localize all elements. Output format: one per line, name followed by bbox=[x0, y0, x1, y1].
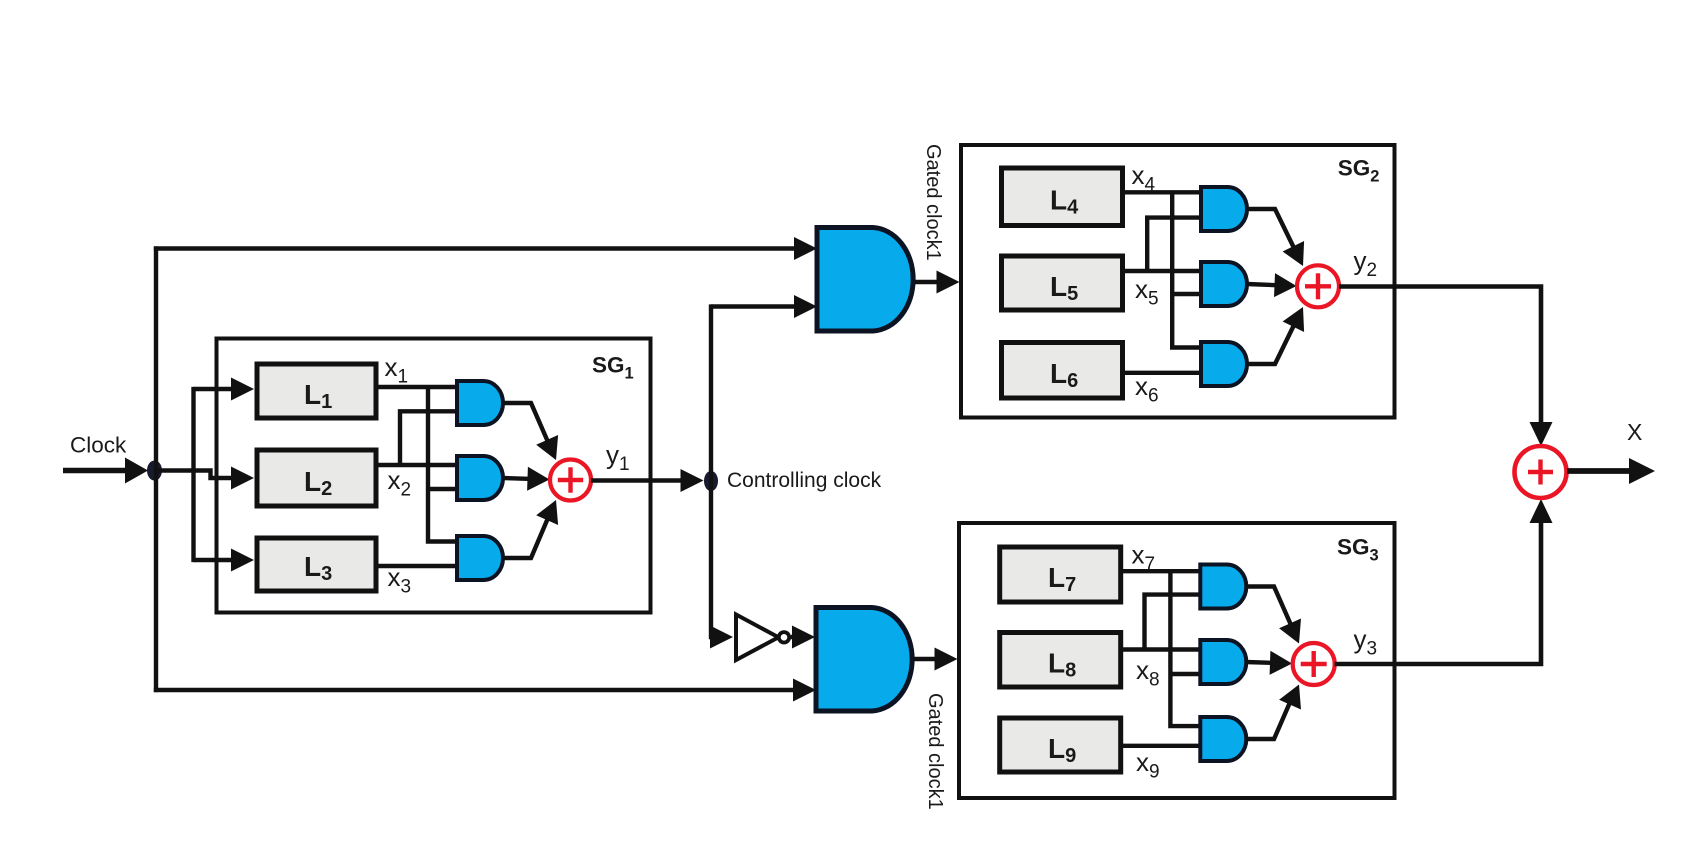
and-gate clock gating top bbox=[817, 228, 913, 332]
node controlling clock junction bbox=[704, 471, 718, 491]
wire x9 from L9 to AND gate bbox=[1120, 744, 1202, 748]
wire A3 output to adder bbox=[503, 518, 548, 558]
and-gate A2 (SG1 middle) bbox=[457, 456, 503, 500]
wire A6 output to adder bbox=[1247, 325, 1294, 364]
wire x5 from L5 to AND gate bbox=[1122, 269, 1203, 273]
wire A7 output to adder bbox=[1246, 587, 1291, 626]
wire x5 branch vertical to AND4 lower input bbox=[1147, 218, 1203, 271]
latch L2 bbox=[257, 450, 376, 506]
wire branch to AND2 lower input bbox=[428, 487, 459, 491]
latch L6 bbox=[1002, 343, 1123, 399]
wire clock junction to L2 input bbox=[155, 471, 237, 479]
wire y1 output to controlling clock node bbox=[591, 478, 682, 482]
wire bottom AND output to SG3 bbox=[914, 657, 937, 661]
wire Clock input arrow bbox=[63, 468, 129, 474]
svg-text:Controlling clock: Controlling clock bbox=[727, 469, 882, 492]
box SG1 bbox=[217, 339, 651, 613]
svg-text:Clock: Clock bbox=[70, 433, 127, 458]
and-gate A9 (SG3 bottom) bbox=[1200, 717, 1246, 761]
wire clock to bottom AND gate bbox=[154, 688, 794, 692]
wire A4 output to adder bbox=[1247, 209, 1294, 248]
latch L9 bbox=[1000, 718, 1121, 772]
adder XOR3 bbox=[1293, 643, 1335, 685]
and-gate A8 (SG3 middle) bbox=[1200, 640, 1246, 684]
wire x8 from L8 to AND gate bbox=[1120, 647, 1202, 651]
wire A2 output to adder bbox=[503, 476, 532, 481]
wire branch to AND8 lower input bbox=[1170, 672, 1202, 676]
wire L-input bus vertical bbox=[191, 387, 195, 562]
adder XOR2 bbox=[1297, 265, 1339, 307]
wire A5 output to adder bbox=[1247, 284, 1279, 285]
wire top AND output to SG2 bbox=[915, 280, 938, 284]
latch L3 bbox=[257, 538, 376, 591]
and-gate A4 (SG2 top) bbox=[1201, 187, 1247, 231]
wire x6 from L6 to AND gate bbox=[1122, 371, 1203, 375]
box SG2 bbox=[961, 145, 1395, 418]
wire bus to L3 input bbox=[194, 558, 237, 562]
svg-text:X: X bbox=[1627, 419, 1642, 445]
and-gate A3 (SG1 bottom) bbox=[457, 536, 503, 580]
wire x4 branch vertical to AND5/AND6 bbox=[1172, 192, 1203, 347]
wire y2 output routed to final adder bbox=[1339, 287, 1541, 429]
node clock junction bbox=[147, 461, 162, 481]
latch L4 bbox=[1002, 168, 1123, 226]
wire A8 output to adder bbox=[1246, 660, 1274, 665]
wire x7 branch vertical to AND8/AND9 bbox=[1170, 571, 1202, 726]
wire x3 from L3 to AND gate bbox=[376, 564, 459, 568]
wire x1 from L1 to AND gate bbox=[376, 385, 459, 389]
wire x8 branch vertical to AND7 lower input bbox=[1145, 595, 1203, 650]
wire x1 branch vertical to AND2/AND3 bbox=[428, 387, 459, 542]
svg-text:Gated clock1: Gated clock1 bbox=[924, 693, 946, 810]
wire clock to top AND gate bbox=[154, 246, 795, 250]
and-gate A7 (SG3 top) bbox=[1200, 565, 1246, 609]
and-gate A5 (SG2 middle) bbox=[1201, 262, 1247, 306]
and-gate clock gating bottom bbox=[816, 608, 912, 712]
adder XOR final bbox=[1515, 446, 1567, 498]
wire x2 branch vertical to AND1 lower input bbox=[400, 411, 459, 465]
latch L7 bbox=[1000, 547, 1121, 602]
wire x2 from L2 to AND gate bbox=[376, 463, 459, 467]
wire x7 from L7 to AND gate bbox=[1120, 569, 1202, 573]
latch L1 bbox=[257, 364, 376, 418]
wire controlling clock to top AND lower input bbox=[711, 304, 795, 308]
wire y3 output routed to final adder bbox=[1335, 516, 1541, 664]
wire controlling clock riser bbox=[709, 304, 713, 639]
wire bus to L1 input bbox=[194, 387, 237, 391]
wire X output bbox=[1567, 468, 1632, 474]
wire A1 output to adder bbox=[503, 403, 548, 442]
box SG3 bbox=[959, 523, 1395, 798]
inverter (NOT gate) bbox=[736, 615, 779, 661]
svg-text:Gated clock1: Gated clock1 bbox=[922, 144, 944, 261]
and-gate A6 (SG2 bottom) bbox=[1201, 342, 1247, 386]
wire A9 output to adder bbox=[1246, 700, 1291, 739]
wire controlling clock to inverter bbox=[711, 635, 715, 639]
latch L5 bbox=[1002, 256, 1123, 310]
and-gate A1 (SG1 top) bbox=[457, 381, 503, 425]
adder XOR1 bbox=[550, 460, 591, 501]
wire x4 from L4 to AND gate bbox=[1122, 190, 1203, 194]
wire branch to AND5 lower input bbox=[1172, 292, 1203, 296]
latch L8 bbox=[1000, 633, 1121, 688]
wire clock riser (junction up and down) bbox=[154, 246, 158, 692]
wire inverter to bottom AND gate bbox=[791, 635, 797, 639]
